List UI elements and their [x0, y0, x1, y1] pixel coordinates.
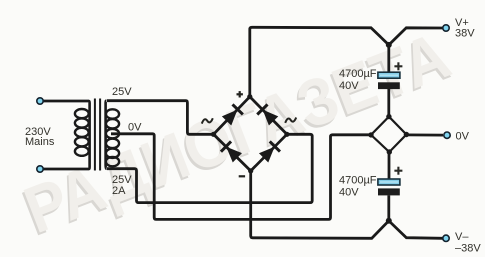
- wire: bridge - down and right to V- with node bump: [251, 171, 443, 238]
- bridge ~ mark left: [202, 118, 213, 123]
- node bridge - vertex: [248, 168, 253, 173]
- svg-text:4700µF: 4700µF: [339, 68, 377, 80]
- diode D4 (- to right AC): [259, 141, 280, 162]
- transformer T1 secondary winding: [106, 101, 120, 169]
- bridge - mark: [239, 175, 245, 177]
- diode D3 (- to left AC): [221, 141, 242, 162]
- transformer T1 core: [94, 99, 96, 171]
- node 0V diamond bottom: [387, 149, 392, 154]
- bridge rectifier arms: [214, 97, 287, 171]
- transformer T1 primary winding: [75, 101, 90, 169]
- svg-text:38V: 38V: [455, 28, 475, 40]
- C2 + mark: [394, 167, 402, 175]
- wire: C2 down to V- node: [387, 195, 390, 220]
- terminal: V- output: [443, 235, 449, 241]
- terminal: mains input bottom: [37, 166, 43, 172]
- node bridge right AC vertex: [284, 132, 289, 137]
- node bridge + vertex: [247, 94, 252, 99]
- wire: C1 down to 0V junction: [387, 89, 390, 117]
- node V+ junction: [386, 42, 392, 48]
- diode D1 (left AC to +): [222, 104, 243, 125]
- wire: 25V top tap to bridge left AC node: [107, 101, 212, 135]
- diode D2 (right AC to +): [257, 104, 278, 125]
- node V- junction: [386, 218, 392, 224]
- node 0V diamond right: [404, 132, 409, 137]
- svg-text:V–: V–: [455, 231, 469, 243]
- svg-text:Mains: Mains: [25, 136, 55, 148]
- wire: 0V junction down to C2: [388, 152, 391, 179]
- wire: 0V centre tap down and right to 0V junction: [111, 134, 371, 220]
- svg-text:25V: 25V: [112, 86, 132, 98]
- capacitor C2 4700uF 40V: [378, 188, 400, 195]
- capacitor C1 4700uF 40V: [378, 82, 400, 89]
- wire: 25V 2A bottom tap down and right to bridge right AC node: [107, 134, 312, 202]
- node 0V diamond left: [368, 132, 373, 137]
- svg-text:40V: 40V: [339, 80, 359, 92]
- wire: mains bottom lead: [42, 168, 89, 171]
- C1 + mark: [394, 62, 402, 70]
- bridge + mark: [237, 91, 243, 97]
- wire: 0V junction to 0V terminal: [406, 133, 443, 136]
- svg-text:40V: 40V: [339, 187, 359, 199]
- wire: bridge + up and right to V+ with node dip: [250, 27, 443, 96]
- node bridge left AC vertex: [211, 132, 216, 137]
- svg-text:0V: 0V: [456, 131, 470, 143]
- svg-text:0V: 0V: [128, 122, 142, 134]
- svg-text:2A: 2A: [112, 185, 126, 197]
- terminal: V+ output: [443, 25, 449, 31]
- wire: mains top lead: [42, 100, 89, 103]
- 0V junction diamond: [371, 117, 406, 152]
- node 0V diamond top: [386, 114, 391, 119]
- svg-text:–38V: –38V: [455, 243, 481, 255]
- terminal: mains input top: [37, 98, 43, 104]
- terminal: 0V output: [444, 132, 450, 138]
- svg-text:4700µF: 4700µF: [339, 175, 377, 187]
- bridge ~ mark right: [285, 118, 296, 123]
- wire: V+ node down to C1: [387, 45, 390, 73]
